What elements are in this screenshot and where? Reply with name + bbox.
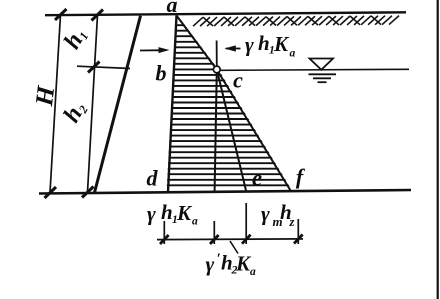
svg-text:K: K (273, 32, 290, 56)
svg-text:γ: γ (261, 202, 270, 226)
pressure line c-f (217, 70, 291, 191)
water table symbol (310, 59, 334, 70)
arrow pointing right at wall (140, 49, 165, 51)
wall back face (a to d) (168, 16, 177, 193)
svg-text:h: h (161, 200, 173, 224)
svg-text:γ: γ (206, 252, 215, 276)
right border line (437, 0, 439, 299)
dimension line h1/h2 (88, 15, 98, 192)
svg-text:c: c (233, 68, 243, 93)
hatching of pressure diagram (158, 25, 300, 185)
svg-text:d: d (147, 166, 159, 191)
svg-text:e: e (252, 166, 262, 191)
extension stub at e (245, 203, 247, 244)
dimension line H (left) (50, 15, 61, 193)
ground hatch band (193, 16, 399, 27)
svg-text:z: z (289, 215, 295, 229)
svg-text:b: b (156, 61, 167, 86)
svg-text:h: h (258, 31, 270, 55)
tick top of H line (55, 9, 67, 20)
svg-text:a: a (167, 0, 178, 17)
wall left face (95, 16, 141, 193)
pointer line above c (216, 41, 218, 67)
bottom dimension line (157, 238, 303, 241)
svg-text:a: a (192, 216, 198, 228)
svg-text:K: K (176, 201, 193, 225)
tick middle of h line (88, 62, 100, 73)
tick at 164 (160, 235, 169, 244)
pressure line c-e (217, 70, 246, 191)
water line (220, 69, 409, 70)
arrow pointing left at pointer line (226, 48, 241, 50)
vertical line c down (215, 70, 217, 191)
extension stub at 214 (213, 221, 215, 244)
tick bottom of h line (82, 187, 94, 198)
svg-text:a: a (290, 48, 296, 60)
node c circle (213, 66, 220, 73)
svg-text:γ: γ (147, 202, 156, 226)
svg-text:γ: γ (245, 33, 254, 57)
tick top of h line (92, 10, 104, 21)
extension line at water level (77, 66, 130, 68)
tick at 298 (294, 235, 303, 244)
tick bottom of H line (45, 187, 57, 198)
tick at 246 (242, 235, 251, 244)
extension stub at d (163, 221, 165, 244)
pressure line a-c (177, 16, 217, 70)
tick at 214 (210, 235, 219, 244)
base line (39, 190, 411, 194)
extension stub at f (297, 219, 299, 244)
svg-text:a: a (250, 266, 256, 278)
leader line for gamma' h2 Ka (230, 241, 238, 254)
ground surface line (45, 12, 406, 15)
